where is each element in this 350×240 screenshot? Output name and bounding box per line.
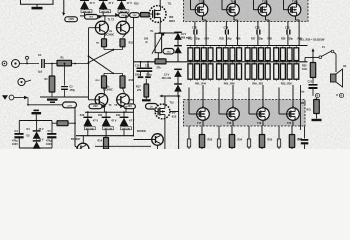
rail feedback	[134, 61, 308, 63]
wire	[158, 32, 178, 34]
wire	[283, 0, 285, 10]
wire	[72, 63, 89, 65]
capacitor C4	[18, 121, 20, 134]
resistor R18	[155, 59, 166, 64]
ground rail	[40, 96, 89, 98]
speaker LS1	[331, 74, 337, 82]
resistor bank row1 g1	[208, 48, 213, 61]
rail	[178, 96, 180, 149]
arrow	[62, 12, 65, 16]
ground	[34, 110, 39, 112]
ground connector	[2, 95, 8, 100]
wire bracket	[103, 47, 105, 50]
resistor bank row2 g2	[223, 64, 228, 79]
resistor R12	[102, 76, 107, 88]
node +50V label	[65, 17, 78, 22]
wire	[334, 52, 336, 54]
wire	[221, 0, 223, 10]
terminal	[312, 89, 314, 94]
resistor R11	[123, 34, 127, 38]
current arrow	[312, 51, 314, 58]
zener D14 12V	[174, 83, 182, 85]
resistor bank row2 g2	[230, 64, 235, 79]
resistor bank row1 g1	[188, 48, 193, 61]
mosfet T17	[197, 108, 210, 121]
resistor bank row2 g4	[287, 64, 292, 79]
resistor R33	[201, 126, 203, 135]
power supply box	[21, 0, 54, 4]
wire	[74, 107, 76, 146]
capacitor C5	[51, 121, 53, 134]
resistor bank row2 g2	[237, 64, 242, 79]
wire	[188, 126, 190, 149]
node label	[120, 104, 124, 108]
mosfet T18	[227, 108, 240, 121]
mosfet T10 IRF610 driver	[155, 104, 170, 119]
resistor R30	[217, 139, 220, 147]
node shield	[26, 60, 28, 64]
wire	[278, 126, 280, 149]
zener D13 12V	[174, 68, 182, 70]
wire	[278, 100, 280, 115]
resistor bank row1 g3	[259, 48, 264, 61]
zener D12 10V	[174, 45, 182, 47]
resistor bank row2 g2	[217, 64, 222, 79]
wire	[232, 85, 234, 100]
wire arrow	[98, 15, 102, 19]
wire	[74, 108, 76, 146]
capacitor C2	[64, 64, 66, 86]
resistor R34	[231, 126, 233, 135]
wire	[157, 53, 159, 59]
capacitor C16	[202, 16, 204, 20]
mosfet T20	[287, 108, 300, 121]
wire	[89, 27, 96, 29]
capacitor C18	[233, 16, 235, 20]
arrow line	[161, 95, 179, 97]
wire	[63, 0, 65, 13]
zener D3 47V	[117, 0, 126, 1]
mosfet T19	[257, 108, 270, 121]
wire feedback	[300, 85, 302, 130]
transistor T2	[117, 21, 130, 34]
wire	[253, 0, 255, 10]
resistor bank row2 g3	[265, 64, 270, 79]
wire	[95, 145, 151, 147]
zener D2 47V	[99, 0, 108, 1]
wire input bus	[88, 28, 90, 100]
node label	[89, 104, 102, 109]
output bank P-channel box	[184, 0, 309, 22]
resistor bank row2 g3	[252, 64, 257, 79]
resistor bank row1 g3	[265, 48, 270, 61]
mosfet T11 IRF9610 driver	[149, 6, 166, 23]
wire	[190, 0, 192, 10]
rail	[80, 15, 137, 17]
wire	[103, 106, 105, 112]
resistor R13	[120, 76, 125, 88]
resistor bank row2 g1	[201, 64, 206, 79]
wire	[89, 99, 96, 101]
resistor R9	[103, 34, 106, 39]
resistor bank row2 g1	[208, 64, 213, 79]
terminal	[336, 94, 337, 95]
resistor bank row1 g2	[237, 48, 242, 61]
ground	[145, 97, 147, 99]
resistor R29	[187, 139, 190, 147]
resistor bank row1 g4	[274, 48, 279, 61]
resistor bank row2 g1	[188, 64, 193, 79]
resistor R3	[57, 121, 68, 126]
resistor bank row2 g4	[274, 64, 279, 79]
wire	[262, 85, 264, 100]
chassis jack	[18, 78, 25, 85]
wire	[248, 126, 250, 149]
resistor bank row1 g2	[230, 48, 235, 61]
resistor bank row2 g4	[280, 64, 285, 79]
zener D1 47V	[80, 0, 89, 1]
rail	[187, 45, 308, 47]
resistor bank row2 g3	[245, 64, 250, 79]
wire	[218, 126, 220, 149]
resistor bank row1 g2	[217, 48, 222, 61]
capacitor C22	[295, 16, 297, 20]
resistor bank row1 g4	[280, 48, 285, 61]
transistor T5	[123, 88, 125, 93]
resistor R31	[247, 139, 250, 147]
capacitor C10	[140, 62, 142, 68]
resistor bank row1 g4	[294, 48, 299, 61]
ground	[36, 4, 38, 6]
transistor T1	[95, 21, 108, 34]
zener D11 10V	[174, 31, 182, 33]
wire	[164, 96, 166, 104]
resistor bank row2 g1	[195, 64, 200, 79]
fuse F1	[319, 56, 322, 59]
output bank N-channel box	[184, 100, 306, 127]
input jack J1	[2, 61, 7, 66]
ground	[316, 114, 318, 119]
wire feedback bus	[133, 16, 135, 137]
wire	[248, 100, 250, 115]
wire	[20, 63, 40, 65]
resistor bank row2 g4	[294, 64, 299, 79]
node label	[115, 13, 118, 17]
wire	[188, 100, 190, 115]
wire	[104, 16, 106, 22]
node +15V label	[28, 104, 63, 106]
resistor bank row1 g2	[223, 48, 228, 61]
node label	[146, 104, 158, 110]
junction	[137, 13, 140, 16]
wire	[218, 100, 220, 115]
capacitor C23	[304, 126, 306, 139]
wire cross	[89, 56, 114, 73]
wire	[292, 85, 294, 100]
resistor R36	[291, 126, 293, 135]
resistor bank row1 g1	[201, 48, 206, 61]
resistor bank row2 g3	[259, 64, 264, 79]
capacitor C20	[265, 16, 267, 20]
resistor R32	[277, 139, 280, 147]
rail	[85, 111, 134, 113]
node label	[163, 49, 174, 54]
resistor bank row1 g3	[245, 48, 250, 61]
wire	[45, 63, 57, 65]
node label	[130, 13, 140, 18]
wire	[159, 0, 161, 6]
rail	[76, 135, 134, 137]
resistor bank row1 g4	[287, 48, 292, 61]
resistor bank row1 g1	[195, 48, 200, 61]
transistor T4	[103, 88, 105, 93]
node label	[85, 15, 98, 20]
capacitor C11	[147, 62, 149, 68]
rail	[19, 147, 52, 149]
wire	[202, 85, 204, 100]
resistor R35	[261, 126, 263, 135]
zener D4 15V	[36, 121, 38, 131]
wire bracket	[104, 72, 123, 74]
resistor bank row1 g3	[252, 48, 257, 61]
wire output	[304, 58, 306, 62]
supply rail	[19, 120, 52, 122]
